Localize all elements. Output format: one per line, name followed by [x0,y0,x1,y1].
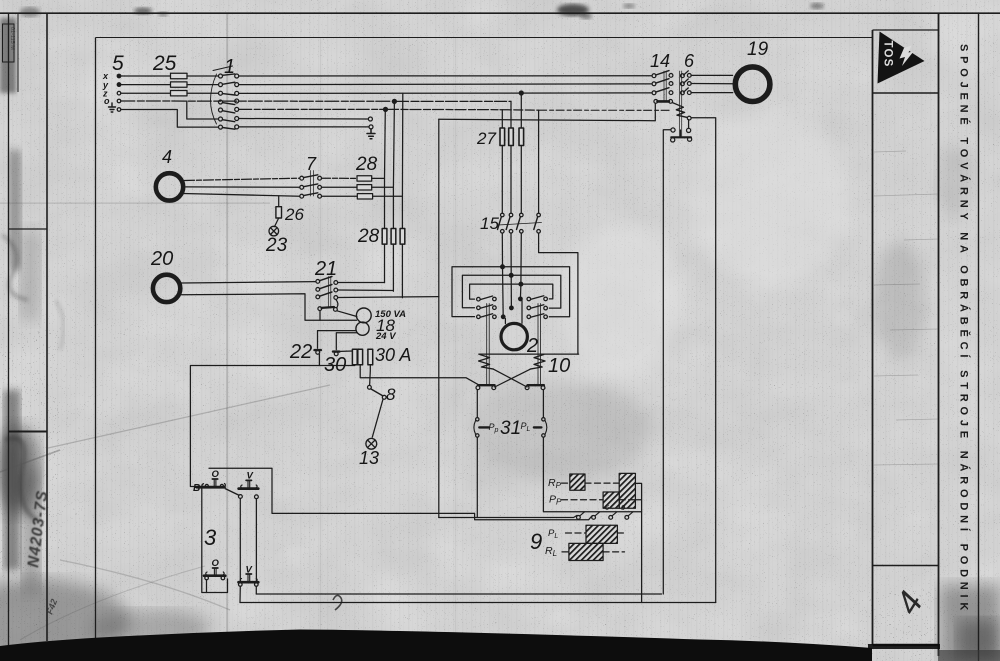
switch 7 linkage [311,171,314,197]
left mid scribbles [2,235,28,300]
contact bar lower-right [528,384,544,386]
svg-text:SPOJENÉ TOVÁRNY NA OBRÁBĚCÍ ST: SPOJENÉ TOVÁRNY NA OBRÁBĚCÍ STROJE NÁROD… [958,44,971,615]
plug contact pair lower [671,137,692,142]
transformer 18 primary circle [356,308,371,323]
svg-text:8: 8 [386,385,396,404]
wire 21 row2 to drop B [338,289,394,292]
switch 15 top contacts [501,213,541,217]
svg-text:3: 3 [204,525,217,550]
drum contact row 2 [477,306,548,310]
wire interlock to right riser [691,118,716,603]
svg-text:o: o [104,96,110,106]
fuse 28d vertical [382,229,387,245]
bottom right gray band [938,650,1000,661]
drum contact row 3 [477,315,548,319]
big box left edge [438,119,440,517]
plug 22 contact 1 [315,350,321,354]
wire 27c to switch 15 [520,146,522,214]
motor 20 lead upper [182,282,316,283]
wire 21 row1 to drop A [338,282,385,284]
TOS logo cell top line [873,29,939,31]
fuse 27c drop [520,93,522,128]
wire switch 7 to fuse 28b [322,186,358,188]
switch 21 right contacts [334,281,338,300]
TOS logo cell bottom line [873,92,939,94]
TOS triangle logo [878,32,925,84]
drum outer loop [452,267,570,317]
drum center feeds [503,267,521,317]
fold crease vertical faint 1 [320,37,321,637]
terminal o circle [117,99,121,103]
left stamp blob [0,425,40,515]
wire y-phase to fuse 25b [121,84,171,86]
left border line inner [46,13,48,641]
switch 1 blades [222,74,235,129]
RL dashed lead [562,551,625,553]
wire x-phase to fuse 25a [121,75,171,77]
wire fuse 28b to drop B [372,186,394,188]
svg-text:31: 31 [500,418,521,439]
wire 27a to switch 15 [501,146,503,214]
middle paper wash [470,380,650,480]
svg-text:14: 14 [650,51,670,71]
scratch scribble bottom [333,595,342,610]
wire fuse 26 to lamp 23 [275,218,279,227]
diagonal crease bottom-left [48,385,330,448]
switch 7 right contacts [318,176,322,198]
interlock bar [658,100,669,103]
svg-text:28: 28 [355,154,378,175]
bottom right dark corner [940,585,1000,661]
left margin dark streaks [9,150,21,270]
spring 10 right [530,355,545,370]
interlock bar contacts [654,100,673,104]
svg-text:O: O [212,469,220,480]
motor 4 lead 3 [183,194,300,197]
wire to 31 right [542,390,544,418]
switch 14 left contacts [652,74,656,95]
wire box top to interlock [439,104,656,121]
wire to 31 left [476,390,478,418]
motor 20 circle [153,275,180,302]
title block right vertical [978,13,980,661]
svg-text:30: 30 [324,354,346,376]
wire PE-line dashed from switch 1 to corner x538.6 [239,108,384,110]
wire 21 row3 to drop C and box wire [338,296,439,299]
drum row 1 blades [480,296,544,300]
bottom left corner wash [0,580,130,660]
svg-text:15: 15 [480,214,499,233]
smudge top centre [557,4,589,16]
svg-text:01-115 M: 01-115 M [9,27,15,50]
svg-text:V: V [246,565,253,576]
switch 21 aux contacts [318,307,337,312]
wire fuse 28a to drop A [372,177,385,179]
svg-text:TOS: TOS [882,41,894,68]
wire fuse 25c to switch 1 [187,92,219,94]
fuse 25a [171,73,188,78]
plug stub [688,120,690,129]
wire o-line step down to switch 1 row6 [187,101,219,119]
wire spare row7 stub [239,126,369,128]
pushbutton V lower [239,574,259,586]
drum inner loop [470,284,553,299]
switch 21 blades [320,277,332,297]
plug T-bar stem [680,130,682,136]
wire z-phase to fuse 25c [121,92,171,94]
wire V lower to bottom wires [240,586,256,602]
top-left small stamp box [3,24,15,62]
contactor coil 2 circle [501,323,527,349]
svg-text:7: 7 [306,154,317,174]
svg-text:1: 1 [224,56,235,78]
wire 15c to drum [520,233,522,284]
title block mid vertical [938,13,940,656]
terminal y dot [117,83,121,87]
resistor Pp block tall [619,473,635,508]
button box column 2 left [239,498,241,582]
bottom rail wire U [439,515,577,517]
button B blade [226,489,240,495]
fuse 27a [500,128,505,146]
wire fuse 30b down and right [360,365,478,385]
title block left vertical [872,30,874,645]
fuse 30b [358,349,363,365]
bottom strip grain [100,570,880,635]
drum top junction dots [501,265,523,286]
lamp 13 [366,438,377,449]
drum side rails [487,304,541,386]
PL dashed lead [566,532,625,534]
wire drop C x402.4 [401,93,403,297]
transformer secondary lead 1 [318,331,357,349]
svg-text:4: 4 [162,147,172,167]
svg-text:21: 21 [314,258,337,280]
switch 21 linkage [329,277,331,309]
wire switch 8 to lamp 13 [372,399,383,437]
svg-text:2: 2 [526,335,538,357]
svg-text:9: 9 [530,529,542,554]
resistor box right edge [641,484,643,603]
spare terminal circle row7 [369,125,373,129]
switch 7 blades [304,175,318,196]
wire y-phase long line to switch 14 [239,83,652,86]
motor 4 lead 2 [186,186,300,188]
svg-text:19: 19 [747,39,769,60]
svg-text:30 A: 30 A [375,345,411,365]
switch 6 right contacts [687,74,691,95]
wire o-line to fuse bank 27 [121,100,393,102]
lamp 23 [269,226,279,236]
svg-text:22: 22 [289,341,312,363]
title column faint row lines [874,151,938,465]
fuse 28b [357,185,372,190]
top border line [0,12,1000,14]
resistor Rp block [570,474,585,490]
wire drop A x384.5 [384,109,387,282]
terminal z circle [117,91,121,95]
motor 19 circle [735,67,770,102]
wire 22 to fuse 30 [341,350,353,352]
smudge top left marks [134,8,152,15]
lower contacts row [476,386,545,390]
switch 15 linkage [498,223,542,226]
pushbutton O lower [204,568,225,593]
contactor coil 2 feeds [505,301,522,324]
wire drop B x393.4 [393,101,394,291]
svg-text:20: 20 [150,248,173,270]
svg-text:26: 26 [284,205,304,224]
fuse 27b [509,128,514,146]
sheet number cell top line [873,565,939,567]
switch 1 right contacts [235,74,239,129]
Rp dashed lead [562,482,643,484]
motor 4 circle [156,173,183,200]
junction dot z-line drop [519,91,523,95]
fuse 28f vertical [400,229,405,245]
switch 7 left contacts [300,176,304,198]
fuse 30A [368,349,373,365]
ground symbol below spare terminals [367,129,375,139]
wire 6 to motor 19 line3 [691,92,733,94]
wire fuse 25a to switch 1 [187,75,219,77]
interlock diagonal to spring [672,103,683,108]
node line under coil 2 [479,353,579,355]
top-left stamp darks [0,18,16,93]
switch 8 bottom contact [382,395,386,399]
bottom right grain [920,540,1000,661]
fuse 25c [171,91,188,96]
ground symbol at terminal strip [109,103,116,112]
transformer secondary lead 2 [336,333,356,350]
crossover diagonal right [495,369,530,387]
button box column 1 [202,487,228,593]
pushbutton V upper [239,480,259,498]
wire V from button box [209,468,592,520]
plug contacts row bottom [577,516,629,520]
switch 21 left contacts [316,280,320,299]
plug contact pair upper [671,128,691,133]
terminal x dot [117,74,121,78]
wire 15d bypass to node under contactor [539,233,578,354]
drum row 2 blades [480,305,544,309]
switch 15 bottom contacts [501,230,541,234]
wire 15b to drum [510,233,512,275]
junction dot PE-line drop [384,107,388,111]
wire plug to left riser [663,130,671,594]
bottom scan black band [0,630,872,661]
fuse 26 [276,207,282,218]
motor 4 lead 1 [185,178,300,180]
fuse 25b [171,82,188,87]
wire switch 7 to fuse 28c [322,195,358,197]
wire PE to switch 1 row7 [121,110,219,128]
drum contact row 1 [477,297,548,301]
resistor RL block [569,543,603,560]
svg-text:10: 10 [548,355,570,377]
drum middle loop [462,275,560,308]
interlock spring zigzag [676,107,687,117]
switch 8 blade [371,389,383,396]
motor 20 lead lower to corner [182,294,357,320]
svg-text:O: O [212,558,220,569]
drawing frame left edge [95,38,97,641]
resistor Pp block step [603,492,619,508]
fuse 28c [357,194,372,199]
title block bottom line [873,644,939,646]
spring 10 left [479,355,494,370]
svg-text:V: V [247,471,254,482]
fuse 27a drop [501,110,503,128]
switch 8 top contact [368,385,372,389]
svg-text:27: 27 [476,129,496,148]
fold crease vertical faint 2 [455,37,456,637]
junction dot o-line drop [392,99,396,103]
wire switch 7 to fuse 28a [322,177,358,179]
fold crease horizontal faint [0,203,270,204]
resistor PL block [586,525,617,543]
svg-text:23: 23 [265,235,288,256]
wire fuse 25b to switch 1 [187,84,219,86]
contact bar lower-left [478,384,494,386]
bottom long wire 2 [240,602,716,604]
fuse 28a [357,176,372,181]
transformer 18 secondary circle [356,322,369,335]
thermal contact 31 right [534,418,547,438]
wire 6 to motor 19 line2 [691,83,733,85]
wire spare row6 stub [239,118,369,121]
left border line outer [8,13,10,648]
right column smudges [875,240,925,360]
fold crease vertical main [226,14,228,640]
switch 14 blades [656,71,669,93]
wire 15a to drum [501,233,503,266]
button box column 2 right [255,499,257,582]
plug prongs [580,512,633,516]
fuse 27c [519,128,524,146]
wire z-phase long line to switch 14 [239,92,652,95]
thermal contact 31 left [474,418,489,438]
bottom band right thin line [868,644,940,649]
fuse 28e vertical [391,229,396,245]
switch 6 linkage [679,71,681,137]
wire 21 aux to transformer [320,311,357,321]
drawing frame top edge [96,37,873,39]
switch 1 left contacts [219,74,223,129]
fuse 30a [352,349,357,365]
svg-text:13: 13 [359,448,379,468]
plug 22 contact 2 [333,352,339,356]
left border short line [17,13,19,92]
tap to control fuse 26 [278,196,280,207]
svg-text:25: 25 [152,52,177,75]
switch 1 linkage arc [211,74,217,124]
button B wire bar [197,484,225,488]
switch 6 blades [684,71,689,92]
wire fuse 30A to switch 8 [369,365,372,386]
left margin cell divider y229 [9,228,48,230]
svg-text:6: 6 [684,51,695,71]
svg-text:5: 5 [112,52,124,75]
return wire to button B [190,365,354,487]
wire 22 to return line [318,354,320,365]
switch 14 linkage [664,71,666,101]
switch 21 aux hook [336,299,338,307]
wire 27b to switch 15 [510,146,512,214]
switch 15 blades [498,217,538,230]
drum row 3 blades [480,314,544,318]
plug T-bar [671,136,691,138]
left margin grain [0,80,95,640]
wire 31 left down to bottom rail [476,437,478,517]
interlock lower contact [687,116,691,120]
terminal PE circle [117,108,121,112]
switch 14 right contacts [669,74,673,95]
wire corner to switch 15 pole4 [538,110,540,213]
switch 21 aux bar [322,306,335,309]
bottom long wire 1 [256,593,661,595]
wire fuse 28c to drop C [373,195,403,197]
Pp dashed lead [562,499,643,501]
spare terminal circle row6 [368,117,372,121]
crossover diagonal left [494,369,527,387]
svg-text:B: B [193,483,200,494]
svg-text:24 V: 24 V [375,331,396,342]
left margin cell divider y431 [9,431,48,433]
wire 31 right down to resistor box [543,437,641,511]
switch 6 left contacts [681,74,685,95]
wire x-phase long line to switch 14 [239,75,652,77]
wire 6 to motor 19 line1 [691,74,733,76]
fuse 27b drop [510,101,512,128]
svg-text:28: 28 [357,226,380,247]
switch 1 actuating slash [213,66,233,71]
pushbutton O upper [212,479,217,486]
